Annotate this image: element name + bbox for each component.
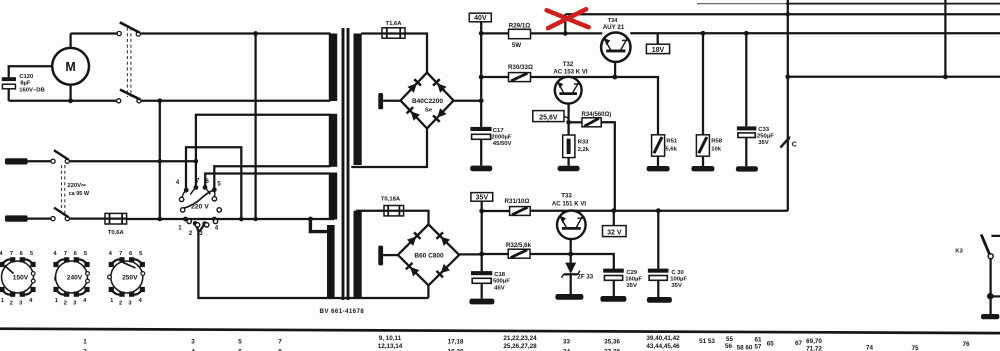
svg-text:ZF 33: ZF 33 (577, 273, 594, 280)
mains terminal bar N (5, 215, 28, 221)
node T33 emitter (568, 252, 573, 257)
wire T34 collector rail right (630, 32, 1000, 34)
svg-text:25,6V: 25,6V (539, 114, 558, 121)
box 40V (469, 13, 491, 33)
wire bridge bottom to secondary return (351, 128, 427, 167)
wire R32 to ZF33 node (530, 253, 571, 255)
red X deletion mark (547, 9, 589, 28)
ground R58 (691, 166, 714, 171)
wire R30 branch line y77 (481, 76, 508, 78)
mains terminal bar L (5, 158, 28, 164)
svg-text:39,40,41,42: 39,40,41,42 (646, 335, 680, 342)
resistor R31 (505, 198, 531, 215)
ground C29 (600, 296, 626, 302)
wire vertical x255.6 (254, 34, 256, 220)
capacitor C17 (470, 127, 511, 166)
vertical feed x787.8 (787, 0, 789, 211)
svg-text:B40C2200: B40C2200 (412, 98, 443, 105)
svg-text:500µF: 500µF (493, 278, 510, 284)
ground C18 (469, 299, 494, 305)
pencil mark C (780, 136, 796, 148)
node on line B (786, 12, 790, 16)
wire zigzag to lower primary (310, 219, 328, 232)
node C33 branch (744, 31, 749, 36)
transistor T34 (601, 18, 630, 62)
svg-text:35V: 35V (476, 195, 489, 202)
node bridge out (479, 98, 484, 103)
selector pin verticals already drawn; contact dots top (184, 188, 189, 193)
svg-text:C 30: C 30 (671, 270, 684, 276)
svg-text:18V: 18V (652, 47, 665, 54)
wire bridge B60 right to 35V rail (458, 253, 481, 255)
connector K3 (955, 234, 1000, 319)
svg-text:T0,18A: T0,18A (381, 196, 401, 202)
svg-text:7: 7 (10, 251, 13, 257)
svg-text:250V: 250V (122, 274, 138, 281)
fuse T1,6A (382, 21, 405, 38)
svg-text:R31/10Ω: R31/10Ω (505, 198, 530, 205)
wire vertical x159.8 (159, 101, 161, 219)
svg-text:B60 C800: B60 C800 (414, 252, 444, 259)
box 32V (603, 211, 627, 237)
node R30 branch (479, 75, 484, 80)
capacitor C120 (2, 74, 45, 101)
svg-text:10k: 10k (711, 146, 722, 152)
svg-text:250µF: 250µF (757, 134, 774, 140)
svg-text:2000µF: 2000µF (491, 134, 511, 140)
switch S1b (motor bottom) (117, 90, 141, 103)
svg-text:33: 33 (563, 338, 571, 345)
svg-text:AUY 21: AUY 21 (603, 24, 625, 31)
wire R29 to T34 (531, 32, 603, 34)
svg-text:51 53: 51 53 (699, 338, 715, 345)
svg-text:7: 7 (278, 338, 282, 345)
svg-text:76: 76 (962, 341, 970, 348)
table pin numbers row (83, 335, 970, 351)
svg-text:58 60: 58 60 (737, 345, 753, 351)
svg-text:7: 7 (119, 251, 122, 257)
svg-text:T32: T32 (563, 61, 574, 68)
resistor R58 (696, 33, 722, 166)
svg-text:C: C (792, 141, 797, 148)
resistor R29 (509, 22, 531, 49)
node T32 emitter (566, 120, 571, 125)
wire T32 emitter down (567, 103, 569, 135)
svg-text:12,13,14: 12,13,14 (378, 343, 403, 350)
wire R34 to 32V rail (601, 122, 615, 210)
transformer secondary winding upper (354, 34, 362, 166)
capacitor C30 (648, 211, 688, 297)
node 40V rail top (479, 31, 484, 36)
svg-text:220V∾: 220V∾ (67, 183, 86, 189)
svg-text:R29/1Ω: R29/1Ω (509, 22, 531, 29)
svg-text:71,72: 71,72 (806, 345, 822, 351)
resistor R30 (508, 64, 533, 81)
mains switch dashed link (62, 165, 65, 215)
node motor bottom (68, 98, 73, 103)
svg-text:C29: C29 (626, 270, 638, 276)
transformer primary winding S4 (327, 225, 335, 298)
svg-text:160µF: 160µF (625, 277, 642, 283)
svg-text:2,2k: 2,2k (578, 147, 590, 153)
resistor R32 (506, 242, 532, 258)
transistor T33 (552, 192, 587, 239)
wire switch to transformer y100.8 (141, 100, 331, 102)
svg-text:32 V: 32 V (607, 229, 622, 236)
junction dots on y219 line (158, 217, 163, 222)
wire tap y114.8 (196, 115, 331, 186)
bridge rectifier B60C800 (398, 224, 459, 285)
node R58 branch (701, 31, 706, 36)
svg-text:2: 2 (64, 300, 67, 306)
wire bottom line C120 to switch (9, 100, 117, 102)
ground C17 (470, 166, 492, 172)
svg-text:C18: C18 (494, 272, 506, 278)
svg-text:25,26,27,28: 25,26,27,28 (503, 343, 537, 350)
svg-text:3: 3 (191, 338, 195, 345)
wire T-bar to bridge B60 left (383, 254, 399, 256)
node T34 base (612, 75, 617, 80)
svg-text:7: 7 (64, 251, 67, 257)
selector bridge contact curve (184, 191, 213, 209)
svg-text:2: 2 (119, 300, 122, 306)
svg-text:Se: Se (425, 108, 433, 114)
svg-text:150V: 150V (13, 274, 29, 281)
wire fuse to bridge top (405, 34, 427, 73)
wire R31 line (482, 210, 510, 212)
svg-text:40V: 40V (474, 15, 487, 22)
node x159.8 top (157, 98, 162, 103)
switch S1a (motor top) (117, 22, 140, 36)
wire R30 to T34 base node and corner to R51 (531, 77, 659, 135)
svg-text:K3: K3 (955, 248, 963, 254)
wire fuse output line y219 (127, 218, 334, 220)
spare selector 250V (108, 251, 145, 307)
node line D right (943, 74, 948, 79)
svg-text:1: 1 (83, 338, 87, 345)
resistor R34 (581, 112, 611, 127)
svg-text:35V: 35V (626, 283, 637, 289)
wire T33 emitter down (570, 239, 572, 263)
resistor R51 (652, 135, 678, 166)
svg-text:35V: 35V (758, 140, 769, 146)
ground C33 (736, 166, 758, 171)
wire mains L (28, 160, 51, 162)
svg-text:R58: R58 (711, 138, 723, 144)
wire R31 to T33 rail (530, 210, 788, 212)
svg-text:9, 10,11: 9, 10,11 (379, 335, 402, 342)
switch S2b (mains N) (51, 208, 70, 221)
transformer core (342, 28, 345, 300)
node x159.8 on L line (158, 159, 163, 164)
wire switch to transformer top y33.5 (140, 32, 330, 34)
bridge rectifier B40C2200 (401, 73, 454, 129)
wire pin4 loop y147.3 (186, 147, 241, 219)
node primary top branch (253, 31, 258, 36)
line D y76.8 (788, 76, 1000, 78)
contact dots bottom (183, 217, 188, 222)
svg-text:69,70: 69,70 (806, 338, 822, 345)
ground R33 (558, 166, 580, 171)
svg-text:56: 56 (725, 343, 733, 350)
box 18V (646, 33, 669, 54)
svg-text:8µF: 8µF (20, 81, 31, 87)
svg-text:17,18: 17,18 (448, 338, 464, 345)
svg-text:M: M (65, 60, 75, 74)
spare selector 240V (53, 251, 89, 307)
node 32V tick (611, 208, 616, 213)
svg-text:C33: C33 (758, 127, 770, 133)
svg-text:100µF: 100µF (670, 277, 687, 283)
transformer primary winding S3 (329, 173, 337, 220)
ground C30 (647, 297, 672, 303)
wire secondary lower to fuse T0,18A (356, 210, 384, 212)
svg-text:5: 5 (238, 338, 242, 345)
svg-text:57: 57 (754, 343, 762, 350)
svg-text:R33: R33 (578, 140, 590, 146)
wire switch N to fuse (70, 217, 106, 219)
svg-text:C17: C17 (493, 128, 505, 134)
capacitor C33 (737, 33, 774, 166)
wire switch L to selector (70, 160, 196, 162)
winding terminal T-bar lower (378, 246, 383, 266)
voltage selector 220V (plugged) (176, 179, 221, 237)
wire T33 node to C29 (571, 254, 614, 269)
transformer secondary winding lower (354, 211, 362, 298)
wire 40V vertical rail (480, 33, 482, 127)
wire T-bar to bridge left (383, 100, 401, 102)
wire selector pin3 down and across y298 (195, 224, 428, 299)
table separator line (0, 329, 1000, 333)
svg-text:T1,6A: T1,6A (385, 21, 402, 27)
switch gang dashed link (127, 28, 130, 98)
wire T34 base down (614, 62, 616, 77)
svg-text:61: 61 (754, 336, 762, 343)
node R32/bridge branch (479, 252, 484, 257)
svg-text:AC 151 K VI: AC 151 K VI (552, 201, 587, 208)
wire to R34 (569, 121, 582, 123)
svg-text:R51: R51 (666, 138, 678, 144)
ground R51 (647, 166, 670, 171)
svg-text:ca 95 W: ca 95 W (69, 191, 90, 197)
svg-text:AC 153 K VI: AC 153 K VI (553, 69, 588, 76)
svg-text:T0,6A: T0,6A (108, 230, 125, 236)
box 25,6V (533, 111, 569, 122)
svg-text:T33: T33 (561, 192, 572, 199)
node C30 branch on rail (656, 208, 661, 213)
svg-text:45/50V: 45/50V (493, 141, 512, 147)
node end at pin7 vertical (194, 159, 199, 164)
line B from deleted node (565, 13, 1000, 15)
wire R32 line (482, 253, 509, 255)
top line A (697, 3, 1000, 5)
svg-text:5,6k: 5,6k (665, 146, 677, 152)
wire mains N (28, 217, 51, 219)
transformer Tr primary winding S1 (329, 34, 337, 102)
spare selector 150V (0, 251, 36, 307)
svg-text:35,36: 35,36 (604, 338, 620, 345)
node crossed-out link (563, 31, 568, 36)
node R31 branch (479, 209, 484, 214)
svg-text:65: 65 (767, 340, 775, 347)
wire secondary top to fuse T1,6A (361, 32, 382, 34)
svg-text:C120: C120 (19, 74, 34, 80)
svg-text:67: 67 (795, 340, 803, 347)
svg-text:R34(560Ω): R34(560Ω) (581, 112, 611, 118)
transformer primary winding S2 (329, 114, 337, 167)
resistor R33 (563, 135, 590, 166)
wire rail y33.3 to R29 (481, 32, 508, 34)
transistor T32 (553, 61, 588, 104)
pin hooks (182, 190, 186, 197)
capacitor C18 (471, 271, 510, 299)
capacitor C29 (603, 269, 642, 296)
svg-text:45V: 45V (494, 285, 505, 291)
wire bridge right to 40V rail (453, 100, 481, 102)
svg-text:240V: 240V (67, 274, 83, 281)
svg-text:74: 74 (866, 345, 874, 351)
wire motor left branch (9, 66, 52, 77)
svg-text:21,22,23,24: 21,22,23,24 (503, 335, 537, 342)
svg-text:160V–DB: 160V–DB (19, 88, 45, 94)
svg-text:2: 2 (10, 300, 13, 306)
vertical feed x945.4 (944, 0, 946, 77)
svg-text:R32/5,6k: R32/5,6k (506, 242, 532, 249)
svg-text:55: 55 (726, 336, 734, 343)
svg-text:35V: 35V (671, 283, 682, 289)
box 35V (471, 193, 493, 211)
svg-text:220 V: 220 V (191, 204, 209, 211)
fuse T0,6A (105, 213, 127, 236)
wire tap y173.5 (205, 174, 330, 187)
zener ZF33 (562, 263, 594, 294)
svg-text:BV 661-41678: BV 661-41678 (320, 308, 365, 315)
wire 35V vertical rail (481, 211, 483, 271)
motor M (52, 34, 89, 101)
ground ZF33 (555, 294, 583, 300)
svg-text:75: 75 (911, 345, 919, 351)
switch S2a (mains L) (51, 150, 70, 163)
node line D left (785, 74, 790, 79)
svg-text:43,44,45,46: 43,44,45,46 (646, 343, 680, 350)
wire tap y166.2 (214, 166, 330, 188)
fuse T0,18A (381, 196, 404, 216)
wire bridge B60 bottom (427, 285, 429, 298)
wire motor top to switch (71, 32, 117, 34)
wire fuse to bridge B60 top (404, 211, 429, 225)
wire deleted link remnant (under red X) (564, 14, 566, 33)
svg-text:R30/33Ω: R30/33Ω (508, 64, 533, 71)
plug pin circles (179, 197, 183, 201)
svg-text:5W: 5W (512, 42, 521, 49)
winding terminal T-bar upper (378, 93, 383, 109)
